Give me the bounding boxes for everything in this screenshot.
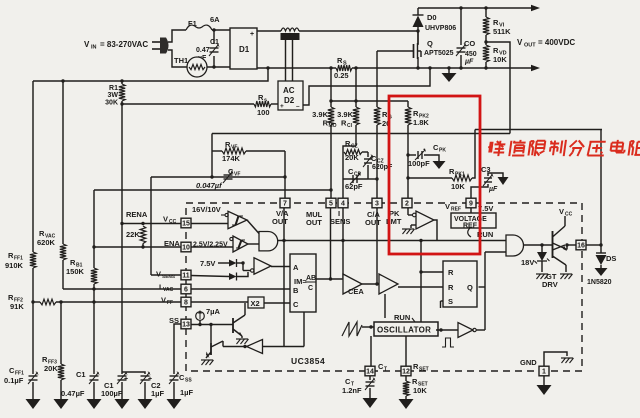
svg-text:T: T xyxy=(384,367,387,373)
svg-text:= 400VDC: = 400VDC xyxy=(538,38,575,47)
svg-text:+: + xyxy=(250,31,254,38)
svg-text:1: 1 xyxy=(542,369,546,376)
svg-text:8: 8 xyxy=(184,300,188,307)
svg-text:1µF: 1µF xyxy=(151,389,164,398)
svg-text:3W: 3W xyxy=(108,92,119,99)
svg-text:D2: D2 xyxy=(284,96,295,105)
svg-text:RENA: RENA xyxy=(126,210,148,219)
svg-text:= 83-270VAC: = 83-270VAC xyxy=(100,40,148,49)
svg-text:Q: Q xyxy=(467,283,473,292)
svg-text:A: A xyxy=(293,263,299,272)
svg-text:GND: GND xyxy=(520,358,537,367)
svg-text:C1: C1 xyxy=(210,39,219,46)
svg-text:V: V xyxy=(445,202,450,211)
svg-text:5: 5 xyxy=(329,201,333,208)
svg-text:0.47µF: 0.47µF xyxy=(61,389,85,398)
svg-text:1µF: 1µF xyxy=(180,388,193,397)
svg-text:UC3854: UC3854 xyxy=(291,356,325,366)
svg-text:91K: 91K xyxy=(10,302,24,311)
svg-text:9: 9 xyxy=(469,201,473,208)
svg-text:12: 12 xyxy=(402,369,410,376)
svg-text:V: V xyxy=(161,296,166,305)
svg-text:RUN: RUN xyxy=(394,313,410,322)
svg-text:13: 13 xyxy=(182,322,190,329)
svg-text:1.8K: 1.8K xyxy=(413,118,429,127)
svg-text:OUT: OUT xyxy=(272,217,288,226)
svg-text:C1: C1 xyxy=(76,370,86,379)
svg-text:AB: AB xyxy=(306,275,316,282)
svg-text:OUT: OUT xyxy=(306,218,322,227)
svg-text:6: 6 xyxy=(184,287,188,294)
svg-text:4: 4 xyxy=(341,201,345,208)
svg-text:µF: µF xyxy=(488,186,498,193)
svg-text:CI: CI xyxy=(347,123,353,129)
svg-text:V: V xyxy=(517,38,523,47)
svg-text:0.47: 0.47 xyxy=(196,47,210,54)
svg-text:450: 450 xyxy=(465,51,477,58)
svg-text:OUT: OUT xyxy=(365,218,381,227)
svg-text:1.2nF: 1.2nF xyxy=(342,386,362,395)
svg-text:6A: 6A xyxy=(210,15,220,24)
svg-text:22K: 22K xyxy=(126,230,140,239)
svg-text:SENS: SENS xyxy=(330,217,350,226)
svg-text:R1: R1 xyxy=(109,85,118,92)
svg-text:V: V xyxy=(156,270,161,279)
svg-text:TH1: TH1 xyxy=(174,56,188,65)
svg-text:S: S xyxy=(448,297,453,306)
svg-text:7µA: 7µA xyxy=(206,307,220,316)
svg-text:10: 10 xyxy=(182,245,190,252)
svg-text:IN: IN xyxy=(91,45,97,51)
svg-text:CZ: CZ xyxy=(351,144,358,150)
svg-text:174K: 174K xyxy=(222,154,241,163)
svg-text:F1: F1 xyxy=(188,19,197,28)
svg-text:C: C xyxy=(308,285,313,292)
svg-text:V: V xyxy=(84,40,90,49)
svg-text:10K: 10K xyxy=(413,386,427,395)
svg-text:CEA: CEA xyxy=(348,287,364,296)
svg-text:MO: MO xyxy=(329,123,337,129)
svg-text:ENA: ENA xyxy=(164,239,180,248)
svg-text:7.5V: 7.5V xyxy=(200,259,215,268)
svg-text:620K: 620K xyxy=(37,238,56,247)
svg-text:D1: D1 xyxy=(239,45,250,54)
svg-text:100µF: 100µF xyxy=(101,389,123,398)
svg-text:10K: 10K xyxy=(493,55,507,64)
svg-text:C3: C3 xyxy=(481,165,491,174)
svg-text:PK1: PK1 xyxy=(455,172,465,178)
svg-text:B: B xyxy=(293,286,299,295)
svg-text:VF: VF xyxy=(234,172,240,178)
svg-text:APT5025: APT5025 xyxy=(424,50,454,57)
svg-text:s: s xyxy=(264,98,267,104)
svg-text:CO: CO xyxy=(464,39,475,48)
svg-text:18V: 18V xyxy=(521,258,534,267)
svg-text:30K: 30K xyxy=(105,100,118,107)
svg-text:PK: PK xyxy=(439,148,446,154)
svg-text:100: 100 xyxy=(257,108,270,117)
svg-text:11: 11 xyxy=(182,273,190,280)
svg-text:150K: 150K xyxy=(66,267,85,276)
svg-text:0.047µf: 0.047µf xyxy=(196,181,223,190)
svg-text:1N5820: 1N5820 xyxy=(587,279,612,286)
svg-text:C: C xyxy=(293,300,299,309)
svg-text:OSCILLATOR: OSCILLATOR xyxy=(377,326,431,335)
svg-text:100pF: 100pF xyxy=(408,159,430,168)
svg-text:UHVP806: UHVP806 xyxy=(425,25,456,32)
svg-text:3: 3 xyxy=(375,201,379,208)
svg-text:62pF: 62pF xyxy=(345,182,363,191)
svg-text:DRV: DRV xyxy=(542,280,558,289)
svg-text:10K: 10K xyxy=(451,182,465,191)
svg-text:2: 2 xyxy=(405,201,409,208)
svg-text:OUT: OUT xyxy=(524,43,536,49)
svg-text:–: – xyxy=(296,103,300,110)
svg-text:VF: VF xyxy=(231,145,237,151)
svg-text:AC: AC xyxy=(283,86,295,95)
svg-text:+: + xyxy=(280,103,284,110)
svg-text:CC: CC xyxy=(169,219,177,225)
svg-text:SET: SET xyxy=(419,367,429,373)
svg-text:µF: µF xyxy=(464,59,474,66)
svg-text:R: R xyxy=(448,268,454,277)
svg-text:15: 15 xyxy=(182,221,190,228)
svg-text:I: I xyxy=(159,283,161,292)
svg-text:SS: SS xyxy=(169,316,179,325)
svg-text:0.1µF: 0.1µF xyxy=(4,376,24,385)
svg-text:V: V xyxy=(163,215,168,224)
svg-text:14: 14 xyxy=(366,369,374,376)
svg-text:DS: DS xyxy=(606,254,616,263)
svg-text:R: R xyxy=(448,283,454,292)
svg-text:20K: 20K xyxy=(345,153,359,162)
svg-text:X2: X2 xyxy=(251,299,260,308)
svg-text:511K: 511K xyxy=(493,27,511,36)
svg-text:CC: CC xyxy=(565,212,573,218)
svg-text:0.25: 0.25 xyxy=(334,71,349,80)
svg-text:V: V xyxy=(559,207,564,216)
svg-text:Q: Q xyxy=(427,39,433,48)
svg-text:7: 7 xyxy=(283,201,287,208)
svg-text:910K: 910K xyxy=(5,261,24,270)
svg-text:CP: CP xyxy=(354,172,362,178)
svg-text:SS: SS xyxy=(185,378,192,384)
svg-text:REF: REF xyxy=(451,207,461,213)
svg-text:FF: FF xyxy=(167,300,173,306)
svg-text:16: 16 xyxy=(577,243,585,250)
svg-text:20K: 20K xyxy=(44,364,58,373)
svg-text:S: S xyxy=(343,61,347,67)
svg-text:D0: D0 xyxy=(427,13,437,22)
svg-text:VAC: VAC xyxy=(163,287,174,293)
svg-text:+: + xyxy=(124,376,128,383)
svg-text:16V/10V: 16V/10V xyxy=(192,205,221,214)
